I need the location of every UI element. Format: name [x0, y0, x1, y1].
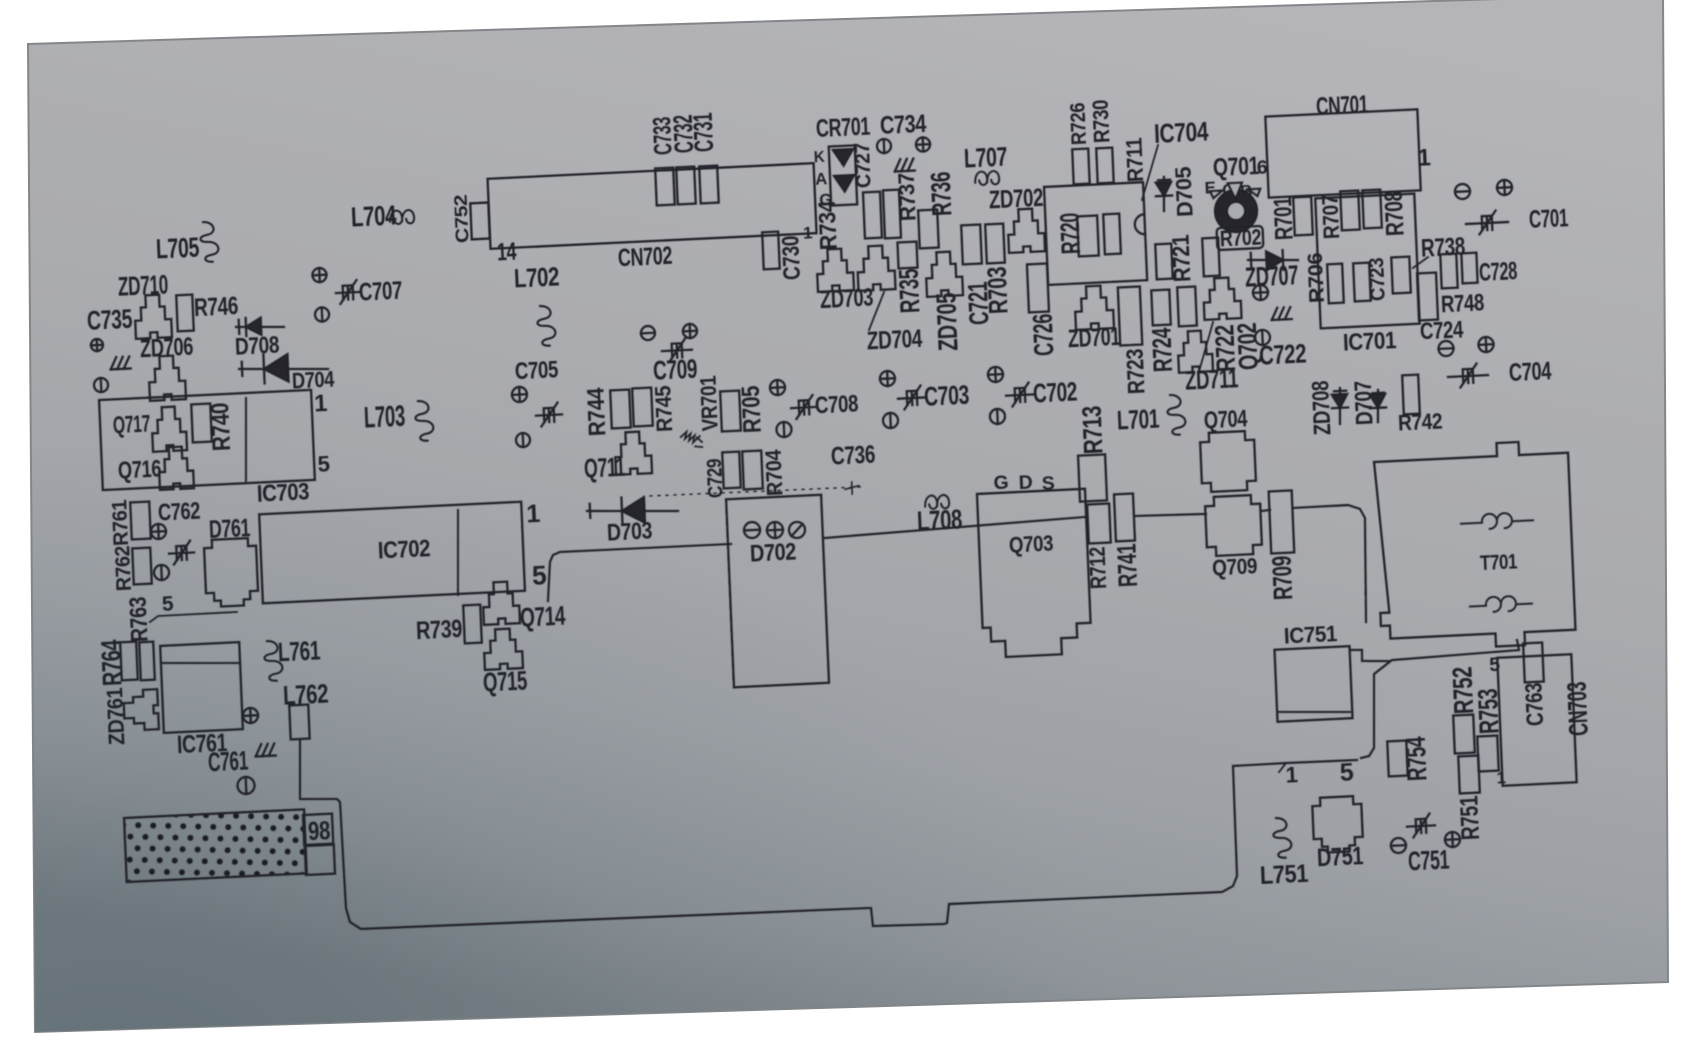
resistor R724 body — [1151, 290, 1170, 326]
resistor R712 body — [1087, 503, 1111, 543]
resistor R764 body b — [139, 642, 155, 681]
svg-text:R723: R723 — [1123, 348, 1151, 395]
capacitor C704 symbol — [1448, 363, 1489, 388]
diode D761 — [204, 538, 259, 607]
svg-text:C763: C763 — [1522, 682, 1550, 727]
wire from D702 to Q703 — [825, 517, 1086, 538]
svg-text:R763: R763 — [126, 596, 154, 643]
svg-text:ZD761: ZD761 — [102, 687, 129, 745]
transistor Q716 — [158, 446, 194, 490]
resistor R754 body — [1387, 741, 1407, 777]
svg-text:C752: C752 — [450, 194, 472, 243]
IC761 divider — [163, 659, 240, 666]
polarity mark minus near C709 — [641, 326, 656, 341]
inductor L761 — [264, 640, 283, 681]
svg-text:L707: L707 — [963, 141, 1007, 173]
polarity plus inside D702 — [767, 522, 784, 539]
wire from R709 to T701 — [1293, 504, 1369, 625]
svg-text:IC704: IC704 — [1153, 116, 1209, 149]
svg-text:C762: C762 — [157, 498, 200, 526]
polarity mark minus near C751 — [1391, 838, 1407, 854]
svg-text:IC751: IC751 — [1283, 621, 1337, 649]
svg-text:C707: C707 — [358, 277, 402, 307]
transistor Q717 — [151, 406, 187, 452]
diode ZD710 — [134, 294, 172, 339]
polarity mark bar left of C722 — [1255, 330, 1271, 346]
svg-text:C736: C736 — [830, 441, 876, 471]
resistor R752 body — [1453, 715, 1475, 754]
capacitor C729 body — [722, 452, 741, 489]
svg-text:C728: C728 — [1478, 257, 1518, 287]
inductor L707 — [975, 171, 1000, 186]
leader line to ZD704 — [867, 292, 885, 330]
resistor R720 body a — [1077, 215, 1099, 256]
resistor R723 body — [1118, 286, 1142, 345]
svg-text:R705: R705 — [737, 385, 767, 434]
polarity mark plus near C701 — [1497, 180, 1513, 196]
capacitor C752 — [470, 203, 490, 240]
polarity mark bar near C735 — [94, 378, 109, 393]
svg-text:R709: R709 — [1267, 555, 1299, 600]
svg-text:C727: C727 — [851, 142, 876, 188]
transistor Q711 — [614, 431, 652, 475]
svg-text:L701: L701 — [1116, 404, 1159, 436]
diode D702 — [726, 495, 829, 688]
capacitor C709 symbol — [661, 338, 692, 362]
wire from R741 to Q709 — [1134, 513, 1206, 518]
IC IC703 — [99, 390, 315, 490]
chassis ground near R737 — [894, 159, 915, 172]
pin line of IC702 — [150, 612, 238, 622]
svg-text:CN701: CN701 — [1315, 91, 1369, 121]
IC IC702 — [259, 502, 525, 604]
svg-text:C704: C704 — [1508, 357, 1552, 387]
resistor R707 body a — [1340, 191, 1360, 231]
resistor R746 — [176, 295, 194, 332]
svg-text:G: G — [993, 472, 1009, 495]
IC703 divider — [242, 398, 249, 481]
svg-text:C708: C708 — [814, 392, 858, 420]
diode D707 — [1377, 390, 1380, 422]
diode ZD702 — [1007, 208, 1045, 253]
svg-text:IC701: IC701 — [1342, 328, 1396, 357]
diode D703 — [587, 507, 678, 516]
IC IC701 — [1315, 194, 1419, 329]
rectifier CR701 internal diodes — [833, 149, 855, 192]
svg-text:IC703: IC703 — [256, 479, 309, 507]
resistor R709 body — [1269, 490, 1295, 553]
resistor R735 body — [897, 242, 917, 269]
resistor R702 boxed label — [1217, 226, 1264, 250]
wire tick at IC751 pin 1 — [1279, 763, 1287, 772]
polarity mark plus near IC761 — [243, 708, 259, 724]
polarity mark bar near C762 — [154, 565, 170, 581]
svg-text:R713: R713 — [1077, 405, 1109, 454]
svg-text:C735: C735 — [86, 303, 132, 335]
rectifier CR701 body — [829, 145, 857, 205]
polarity mark plus near C705 — [512, 387, 528, 403]
svg-text:Q714: Q714 — [519, 600, 566, 632]
svg-text:R751: R751 — [1455, 795, 1485, 841]
polarity mark plus near C709 — [683, 324, 698, 339]
diode ZD706 — [148, 355, 186, 401]
svg-text:1: 1 — [314, 391, 328, 418]
resistor R721 body — [1155, 244, 1172, 280]
transistor Q715 — [483, 628, 523, 670]
svg-text:1: 1 — [1285, 762, 1298, 788]
svg-text:C733: C733 — [648, 116, 678, 156]
svg-text:ZD704: ZD704 — [866, 325, 923, 356]
capacitor C733 body — [655, 168, 675, 206]
marking box empty — [305, 845, 335, 875]
diode ZD711 — [1203, 277, 1242, 320]
resistor R748 body — [1440, 254, 1457, 289]
svg-text:R720: R720 — [1055, 212, 1087, 254]
diode ZD708 — [1338, 388, 1341, 424]
svg-text:L702: L702 — [513, 261, 559, 293]
transistor Q702 body — [1177, 330, 1213, 373]
capacitor C708 symbol — [790, 395, 817, 419]
svg-text:ZD702: ZD702 — [988, 184, 1043, 215]
svg-text:L751: L751 — [1259, 860, 1309, 890]
resistor R745 body — [632, 388, 653, 427]
svg-text:Q716: Q716 — [117, 456, 161, 484]
inductor L762 body — [289, 705, 309, 740]
resistor R739 body — [463, 605, 482, 644]
dotted line near C736 — [650, 486, 860, 497]
capacitor C707 symbol — [335, 280, 360, 304]
transistor Q704 — [1200, 431, 1256, 493]
capacitor C721 body b — [985, 224, 1005, 264]
svg-text:IC702: IC702 — [377, 536, 430, 564]
wire Q709 to R709 — [1261, 510, 1270, 511]
capacitor C727 body — [863, 192, 882, 239]
svg-text:D705: D705 — [1170, 166, 1197, 217]
connector CN703 — [1497, 654, 1576, 786]
svg-text:R706: R706 — [1304, 252, 1329, 303]
svg-text:5: 5 — [1339, 759, 1354, 788]
polarity mark plus near C722 — [1253, 285, 1269, 301]
svg-text:D702: D702 — [749, 539, 796, 567]
transistor Q703 body — [977, 489, 1092, 658]
svg-text:L705: L705 — [155, 231, 199, 264]
capacitor C762 symbol — [169, 540, 195, 564]
capacitor C723 body a — [1353, 263, 1371, 302]
svg-text:R730: R730 — [1088, 99, 1115, 143]
diode ZD701 — [1074, 285, 1114, 330]
polarity mark bar near C702 — [990, 409, 1006, 425]
capacitor C763 body — [1523, 643, 1544, 683]
wire from L762 down to board outline — [297, 688, 1363, 954]
IC751 divider — [1277, 708, 1350, 715]
svg-text:1: 1 — [1417, 145, 1431, 172]
IC702 divider — [454, 510, 461, 595]
capacitor C751 symbol — [1406, 813, 1435, 837]
svg-text:L703: L703 — [363, 401, 405, 435]
svg-text:ZD703: ZD703 — [819, 284, 874, 315]
transformer T701 body — [1373, 440, 1576, 652]
resistor R741 body — [1114, 494, 1135, 542]
resistor R720 body b — [1103, 214, 1121, 255]
svg-text:R745: R745 — [651, 385, 678, 432]
svg-text:Q701: Q701 — [1212, 152, 1260, 182]
resistor R742 body — [1402, 375, 1420, 415]
svg-text:ZD705: ZD705 — [930, 292, 963, 352]
svg-text:Q709: Q709 — [1212, 553, 1258, 580]
IC IC761 — [160, 642, 243, 733]
polarity mark plus near C762 — [151, 524, 167, 540]
svg-text:C702: C702 — [1032, 376, 1077, 408]
capacitor C703 symbol — [898, 385, 927, 409]
varistor VR701 symbol — [681, 431, 703, 448]
svg-text:ZD707: ZD707 — [1244, 259, 1298, 293]
IC IC751 — [1274, 646, 1352, 722]
svg-text:Q717: Q717 — [112, 412, 150, 440]
resistor R707 body b — [1362, 190, 1382, 229]
svg-text:98: 98 — [307, 815, 330, 846]
svg-text:R724: R724 — [1147, 327, 1179, 373]
svg-text:R737: R737 — [893, 172, 920, 221]
capacitor C721 body a — [961, 224, 982, 264]
inductor L708 — [925, 495, 950, 510]
inductor L702 — [537, 305, 556, 346]
svg-text:R761: R761 — [108, 499, 133, 546]
diode ZD707 — [1248, 258, 1298, 263]
resistor R726 body — [1072, 149, 1089, 185]
chassis ground near C722 — [1271, 307, 1292, 320]
svg-text:R708: R708 — [1380, 190, 1410, 237]
resistor R711 body — [1202, 238, 1220, 277]
capacitor C701 symbol — [1466, 210, 1509, 235]
svg-text:R712: R712 — [1085, 546, 1112, 589]
svg-text:Q715: Q715 — [482, 665, 527, 697]
capacitor C702 symbol — [1006, 382, 1035, 406]
resistor R753 body — [1477, 736, 1498, 772]
polarity mark plus near C708 — [770, 380, 786, 396]
wire step to IC751 corner — [1351, 648, 1390, 663]
marking box 98 — [303, 814, 333, 845]
svg-text:Q703: Q703 — [1008, 530, 1053, 557]
transformer T701 primary winding — [1461, 512, 1534, 530]
IC IC704 body — [1044, 182, 1147, 285]
diode D704 — [239, 365, 328, 374]
resistor R744 body — [610, 390, 631, 429]
svg-text:R742: R742 — [1398, 408, 1443, 435]
capacitor C726 — [1027, 263, 1049, 312]
resistor R764 body a — [120, 642, 138, 681]
svg-text:D708: D708 — [234, 332, 279, 360]
svg-text:R741: R741 — [1112, 543, 1144, 587]
svg-text:C705: C705 — [514, 358, 558, 386]
svg-text:R704: R704 — [760, 448, 787, 496]
wire from T701 tab to C763 row — [1356, 640, 1523, 758]
svg-text:R702: R702 — [1219, 224, 1261, 251]
svg-text:C761: C761 — [207, 746, 248, 778]
capacitor C724 body — [1417, 273, 1438, 321]
svg-text:R748: R748 — [1440, 290, 1484, 318]
polarity mark plus near C724 — [1478, 337, 1494, 353]
diode ZD703 — [816, 248, 854, 292]
svg-text:14: 14 — [496, 238, 517, 267]
polarity mark bar near C708 — [776, 422, 792, 438]
svg-text:R703: R703 — [982, 266, 1014, 314]
transistor Q714 — [482, 581, 520, 625]
resistor R722 body — [1177, 287, 1197, 327]
svg-text:R711: R711 — [1122, 137, 1149, 182]
svg-text:R739: R739 — [415, 615, 462, 645]
resistor R706 body — [1327, 264, 1344, 304]
svg-text:C701: C701 — [1528, 204, 1569, 234]
capacitor C731 body — [699, 166, 719, 204]
svg-text:5: 5 — [317, 451, 330, 477]
svg-text:D751: D751 — [1316, 842, 1364, 872]
diode ZD761 — [123, 689, 159, 731]
inductor L751 — [1273, 817, 1292, 858]
svg-text:L761: L761 — [277, 635, 320, 667]
polarity mark minus near C724 — [1438, 341, 1454, 357]
svg-text:R734: R734 — [814, 200, 842, 251]
svg-text:R744: R744 — [583, 387, 611, 437]
svg-text:CN702: CN702 — [617, 242, 672, 273]
inductor L705 — [200, 221, 219, 262]
inductor L703 — [415, 400, 434, 441]
capacitor C705 symbol — [535, 402, 562, 426]
hatched keep-out area — [124, 809, 307, 882]
transistor Q701 body — [1214, 189, 1258, 233]
chassis ground near C735 — [110, 356, 131, 369]
diode D751 — [1312, 796, 1363, 853]
svg-text:CN703: CN703 — [1561, 681, 1593, 736]
diode D705 — [1163, 177, 1166, 211]
diode ZD704 — [857, 245, 896, 291]
transistor Q709 — [1205, 495, 1262, 557]
svg-text:ZD710: ZD710 — [117, 269, 168, 301]
svg-text:R754: R754 — [1400, 736, 1433, 782]
polarity minus inside D702 — [744, 522, 761, 539]
resistor R701 body — [1293, 197, 1313, 236]
polarity mark bar near C707 — [315, 307, 330, 322]
svg-text:C734: C734 — [879, 110, 927, 140]
svg-text:5: 5 — [161, 593, 173, 617]
svg-text:R735: R735 — [893, 268, 926, 313]
polarity mark bar near C705 — [516, 433, 531, 448]
svg-text:5: 5 — [531, 560, 546, 591]
capacitor C723 body b — [1391, 257, 1411, 294]
resistor R705 body — [720, 391, 741, 432]
svg-text:ZD708: ZD708 — [1308, 380, 1336, 436]
polarity mark plus near C702 — [988, 367, 1004, 383]
capacitor C728 body — [1461, 253, 1477, 284]
leader line to R738 — [1413, 257, 1429, 268]
polarity mark bar near C703 — [883, 413, 899, 429]
svg-text:C709: C709 — [652, 353, 697, 385]
polarity mark bar near C761 — [237, 777, 255, 795]
transformer T701 secondary winding — [1470, 595, 1533, 613]
svg-text:L708: L708 — [916, 503, 962, 536]
polarity mark slash near C734 — [877, 139, 892, 154]
wire from IC702 pin 5 to D702 — [546, 544, 733, 601]
svg-text:A: A — [815, 169, 828, 189]
leader line to ZD711 — [1198, 322, 1215, 368]
svg-text:D707: D707 — [1351, 380, 1379, 426]
svg-text:CR701: CR701 — [815, 113, 871, 144]
inductor L704 — [390, 210, 415, 225]
inductor L701 — [1167, 394, 1186, 435]
polarity slash inside D702 — [789, 522, 806, 539]
svg-text:R746: R746 — [193, 292, 239, 322]
svg-text:T701: T701 — [1480, 550, 1518, 575]
capacitor C732 body — [676, 167, 696, 205]
polarity mark plus near C751 — [1445, 832, 1461, 848]
resistor R761 body — [130, 502, 151, 540]
svg-text:R740: R740 — [206, 402, 236, 451]
resistor R736 body — [918, 210, 939, 249]
svg-text:K: K — [813, 149, 825, 167]
resistor R740 — [191, 404, 212, 443]
polarity mark plus near C735 — [91, 339, 104, 352]
resistor R713 body — [1078, 454, 1107, 501]
polarity mark plus near C703 — [880, 371, 896, 387]
svg-text:VR701: VR701 — [695, 375, 722, 431]
resistor R762 body — [132, 548, 152, 585]
svg-text:C726: C726 — [1027, 313, 1060, 356]
resistor R704 body — [742, 451, 763, 490]
polarity mark bar near C722 — [1455, 184, 1471, 200]
leader line to IC704 — [1140, 145, 1161, 200]
svg-text:C751: C751 — [1407, 845, 1449, 877]
resistor R751 body — [1458, 756, 1480, 794]
svg-text:R752: R752 — [1447, 666, 1480, 715]
diode D708 — [236, 325, 284, 330]
polarity mark plus near C707 — [312, 268, 327, 283]
svg-text:1: 1 — [526, 500, 541, 529]
svg-text:C703: C703 — [923, 379, 969, 411]
resistor R730 body — [1096, 148, 1113, 184]
svg-text:ZD706: ZD706 — [139, 333, 194, 364]
svg-text:C730: C730 — [779, 235, 807, 281]
connector CN702 — [488, 163, 817, 249]
resistor R737 body — [883, 190, 901, 239]
chassis ground near C761 — [255, 744, 276, 757]
svg-text:ZD701: ZD701 — [1067, 323, 1121, 353]
capacitor C730 — [762, 232, 780, 270]
svg-text:D703: D703 — [606, 518, 652, 546]
connector CN701 — [1265, 109, 1420, 197]
diode ZD705 — [925, 251, 963, 297]
polarity mark plus near C734 — [916, 137, 931, 152]
